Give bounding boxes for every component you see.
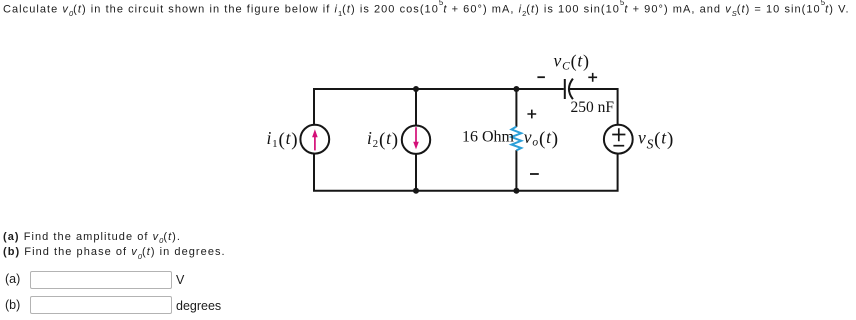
label i1(t)	[267, 128, 299, 151]
resistor R1 zigzag 16 Ohm	[512, 127, 522, 151]
wire: capacitor right side to top-right corner, down to voltage source top	[570, 89, 618, 125]
svg-text:vS(t): vS(t)	[638, 127, 674, 151]
label vC minus polarity	[537, 76, 545, 78]
junction dot: resistor bottom node	[513, 188, 519, 194]
junction dot: i2 top node	[413, 86, 419, 92]
current source I2 arrow	[413, 127, 419, 149]
current source I2 circle	[402, 126, 430, 154]
label vC plus polarity	[588, 73, 597, 82]
svg-text:vo(t): vo(t)	[524, 127, 559, 150]
unit degrees	[176, 299, 221, 313]
label vS(t)	[638, 127, 674, 151]
voltage source VS plus sign	[612, 128, 625, 141]
label vC(t)	[554, 50, 590, 72]
label vo plus polarity	[527, 110, 536, 119]
svg-text:250 nF: 250 nF	[571, 99, 615, 116]
wire: left branch top segment with top-left corner, top wire to capacitor left plate	[314, 89, 564, 125]
wire: resistor branch lower segment	[515, 150, 517, 191]
wire: i2 branch upper segment	[415, 89, 417, 126]
junction dot: resistor top node	[513, 86, 519, 92]
question (a) text	[3, 231, 181, 245]
current source I1 arrow	[312, 129, 318, 150]
svg-text:16 Ohm: 16 Ohm	[462, 129, 515, 146]
answer box (b)	[30, 296, 172, 314]
capacitor C1 straight plate	[564, 79, 566, 99]
voltage source VS minus sign	[613, 145, 624, 147]
wire: bottom loop, left branch below i1, bottom wire, right branch below vs	[314, 154, 618, 191]
problem statement text	[3, 1, 850, 18]
capacitor C1 curved plate	[569, 79, 573, 100]
unit V	[176, 273, 184, 287]
voltage source VS circle	[604, 125, 633, 154]
label 250 nF value	[571, 99, 615, 116]
svg-text:i2(t): i2(t)	[367, 128, 399, 151]
label i2(t)	[367, 128, 399, 151]
current source I1 circle	[300, 125, 329, 154]
label 16 Ohm value	[462, 129, 515, 146]
answer box (a)	[30, 271, 172, 289]
answer row (b) label	[5, 298, 20, 312]
question (b) text	[3, 246, 226, 260]
junction dot: i2 bottom node	[413, 188, 419, 194]
label vo minus polarity	[530, 173, 539, 175]
svg-text:i1(t): i1(t)	[267, 128, 299, 151]
label vo(t)	[524, 127, 559, 150]
wire: resistor branch upper segment	[515, 89, 517, 127]
wire: i2 branch lower segment	[415, 154, 417, 191]
answer row (a) label	[5, 272, 20, 286]
svg-text:vC(t): vC(t)	[554, 50, 590, 72]
